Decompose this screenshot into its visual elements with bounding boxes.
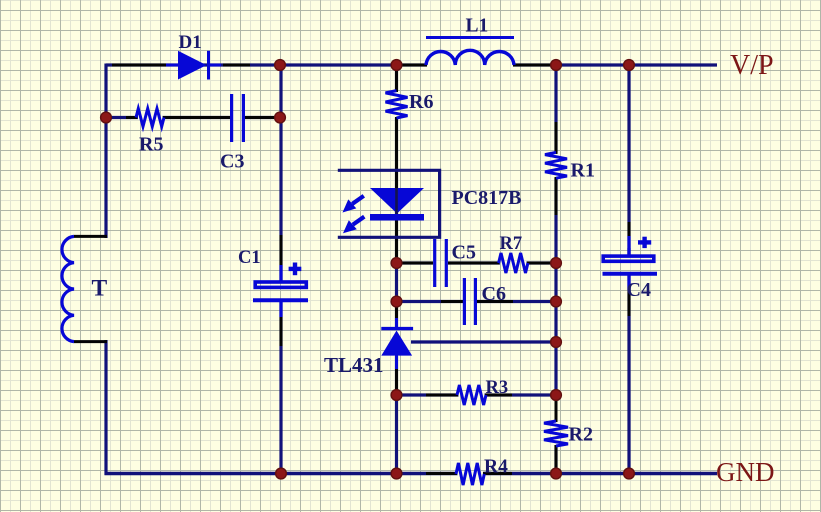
label C5 <box>452 241 476 263</box>
node bottom rail / C4 <box>624 468 635 479</box>
capacitor C6 <box>464 278 475 325</box>
node C5 row left <box>391 258 402 269</box>
svg-text:R7: R7 <box>500 234 523 254</box>
pin C4 top <box>628 222 631 256</box>
pin L1 left <box>400 64 427 67</box>
wire column C1 <box>279 65 282 474</box>
capacitor C5 <box>435 239 447 287</box>
pin R4 left <box>426 472 457 475</box>
pin R3 right <box>485 394 512 397</box>
op-to coupler U1 PC817B box <box>338 170 440 237</box>
wire TL431 ref row <box>411 340 556 343</box>
svg-text:R3: R3 <box>486 378 509 398</box>
pin R5 left <box>126 116 137 119</box>
label R1 <box>571 160 595 182</box>
label TL431 <box>324 353 384 377</box>
pin R6 top <box>395 67 398 92</box>
pin C1 bottom <box>280 317 283 346</box>
wire column middle <box>395 65 398 474</box>
label R2 <box>569 424 593 446</box>
pin R7 right <box>527 262 551 265</box>
resistor R6 <box>386 91 408 118</box>
label R3 <box>486 378 509 398</box>
pin R5 right to C3 <box>163 116 230 119</box>
svg-text:R2: R2 <box>569 424 593 446</box>
svg-text:C6: C6 <box>482 283 506 305</box>
svg-text:TL431: TL431 <box>324 353 384 377</box>
label R4 <box>484 457 508 478</box>
opto LED D <box>370 188 424 221</box>
pin opto LED cathode <box>395 220 398 260</box>
transformer winding T <box>62 236 74 341</box>
pin C5 right to R7 <box>448 262 499 265</box>
node bottom rail / C1 <box>276 468 287 479</box>
node bottom rail / R2 <box>551 468 562 479</box>
pin C5 left <box>402 262 433 265</box>
svg-text:T: T <box>92 276 108 302</box>
pin D1 cathode <box>210 64 250 67</box>
wire R5 C3 row <box>106 116 281 119</box>
wire C6 row <box>397 300 557 303</box>
svg-text:R1: R1 <box>571 160 595 182</box>
pin C6 left <box>441 300 463 303</box>
svg-text:R6: R6 <box>409 91 433 113</box>
capacitor C4 <box>603 237 658 274</box>
label R6 <box>409 91 433 113</box>
node TL431 ref <box>551 337 562 348</box>
svg-text:R5: R5 <box>139 134 163 156</box>
shunt regulator TL431 <box>381 329 413 356</box>
node R3 row right <box>551 390 562 401</box>
node top rail / R6 <box>391 60 402 71</box>
pin L1 right <box>513 64 552 67</box>
label C3 <box>220 151 244 173</box>
wire column right <box>554 65 557 474</box>
pin TL431 anode <box>395 355 398 392</box>
label L1 <box>466 16 489 37</box>
pin C1 top <box>280 235 283 266</box>
svg-text:R4: R4 <box>484 457 508 478</box>
node R5 row right <box>275 112 286 123</box>
wire top rail V/P <box>106 63 717 66</box>
pin R2 top <box>555 397 558 422</box>
node C6 row left <box>391 296 402 307</box>
pin C4 bottom <box>627 274 630 316</box>
opto emission arrow 1 <box>343 196 364 213</box>
node C6 row right <box>551 296 562 307</box>
resistor R2 <box>544 421 568 446</box>
node bottom rail / TL431 <box>391 468 402 479</box>
pin C3 right <box>245 116 276 119</box>
svg-text:C1: C1 <box>238 248 261 268</box>
pin T bottom <box>74 340 107 343</box>
svg-text:V/P: V/P <box>730 50 774 81</box>
label C6 <box>482 283 506 305</box>
resistor R7 <box>499 253 528 273</box>
svg-text:L1: L1 <box>466 16 489 37</box>
inductor L1 <box>426 38 514 66</box>
label R5 <box>139 134 163 156</box>
net label V/P <box>730 50 774 81</box>
node C5 row right <box>551 258 562 269</box>
wire R3 row <box>397 393 557 396</box>
svg-text:PC817B: PC817B <box>452 187 522 209</box>
pin R1 bottom <box>555 177 558 215</box>
pin C6 right <box>477 300 513 303</box>
pin D1 anode <box>112 64 178 67</box>
node R3 row left <box>391 390 402 401</box>
label PC817B <box>452 187 522 209</box>
resistor R5 <box>136 109 164 127</box>
capacitor C3 <box>232 94 244 142</box>
pin R1 top <box>555 122 558 154</box>
resistor R1 <box>545 152 567 178</box>
node top rail / C4 <box>624 60 635 71</box>
label C1 <box>238 248 261 268</box>
capacitor C1 <box>253 263 308 318</box>
wire bottom rail GND <box>105 472 718 475</box>
wire column C4 <box>627 65 630 474</box>
svg-text:C3: C3 <box>220 151 244 173</box>
resistor R3 <box>457 385 486 405</box>
label T <box>92 276 108 302</box>
svg-text:C4: C4 <box>627 279 651 301</box>
node R5 row left <box>101 112 112 123</box>
node top rail / D1 <box>275 60 286 71</box>
diode D1 <box>178 51 210 80</box>
node top rail / R1 <box>551 60 562 71</box>
svg-text:C5: C5 <box>452 241 476 263</box>
label R7 <box>500 234 523 254</box>
net label GND <box>716 457 775 487</box>
wire left column <box>104 64 107 476</box>
pin R3 left <box>426 394 458 397</box>
pin R6 bottom to opto LED <box>395 117 398 189</box>
pin TL431 cathode <box>395 306 398 330</box>
pin R4 right <box>483 472 512 475</box>
resistor R4 <box>456 463 484 485</box>
opto emission arrow 2 <box>343 217 364 234</box>
label D1 <box>179 32 202 53</box>
svg-text:D1: D1 <box>179 32 202 53</box>
pin R2 bottom <box>555 445 558 471</box>
label C4 <box>627 279 651 301</box>
svg-text:GND: GND <box>716 457 775 487</box>
wire C5 R7 row <box>397 261 557 264</box>
pin T top <box>74 235 107 238</box>
